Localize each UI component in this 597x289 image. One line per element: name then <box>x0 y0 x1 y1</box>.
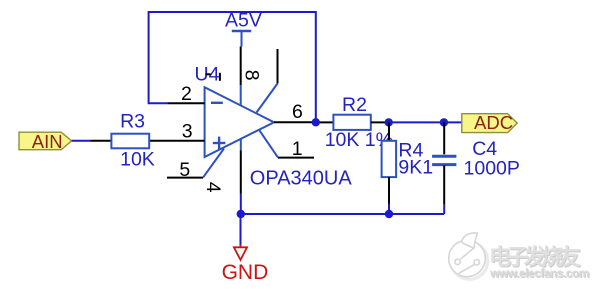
pin 7 lead <box>277 49 279 84</box>
node junction at C4 top <box>440 118 448 126</box>
pin 1 lead <box>278 157 314 159</box>
op-amp U4 triangle body <box>205 87 274 157</box>
ground stem <box>240 245 242 248</box>
svg-text:2: 2 <box>181 83 192 105</box>
svg-text:1000P: 1000P <box>464 157 520 179</box>
pin 7 angled stub <box>257 84 278 113</box>
artifact dash in U4 label <box>205 73 210 75</box>
wire ground rail <box>241 213 444 215</box>
svg-text:AIN: AIN <box>32 131 63 152</box>
resistor R4 top lead <box>388 122 390 140</box>
resistor R2 body <box>333 115 370 130</box>
node junction at ground tee <box>237 210 245 218</box>
svg-text:OPA340UA: OPA340UA <box>250 168 353 190</box>
resistor R2 right lead <box>371 121 389 123</box>
artifact tick after U4 label <box>219 73 221 81</box>
ground triangle symbol <box>234 247 247 260</box>
capacitor C4 top lead <box>443 122 445 154</box>
pin 6 output lead <box>274 121 316 123</box>
resistor R3 leads <box>91 140 168 142</box>
svg-text:A5V: A5V <box>225 10 262 32</box>
port flag ADC <box>462 114 517 133</box>
resistor R3 body <box>111 134 149 149</box>
wire feedback loop from output node to pin 2 <box>149 12 316 122</box>
op-amp U4 inverting input minus marker <box>211 102 223 104</box>
wire to ground symbol <box>240 214 242 245</box>
svg-text:5: 5 <box>179 159 190 181</box>
node junction at op-amp output <box>312 118 320 126</box>
capacitor C4 bottom plate <box>432 163 456 166</box>
node junction at R4 bottom <box>385 210 393 218</box>
resistor R4 body <box>382 141 397 177</box>
svg-text:R2: R2 <box>342 94 367 116</box>
svg-text:1: 1 <box>292 138 303 160</box>
svg-text:9K1: 9K1 <box>398 157 433 179</box>
svg-text:www.elecfans.com: www.elecfans.com <box>489 266 589 280</box>
pin 4 stub to triangle <box>240 139 242 150</box>
resistor R4 bottom lead <box>388 177 390 203</box>
op-amp U4 non-inverting input plus marker <box>213 137 226 150</box>
power port A5V bar symbol <box>232 31 251 47</box>
wire R2 to ADC port <box>389 121 462 123</box>
svg-text:6: 6 <box>292 101 303 123</box>
wire pin 4 to ground rail <box>240 194 242 215</box>
svg-text:R3: R3 <box>120 111 145 133</box>
pin 4 lead <box>240 151 242 194</box>
pin 8 stub to triangle <box>240 85 242 106</box>
pin 2 lead <box>167 102 204 104</box>
svg-text:GND: GND <box>222 261 269 284</box>
node junction at R4 top <box>385 118 393 126</box>
wire C4 to ground rail <box>443 205 445 214</box>
wire AIN to R3 <box>72 140 91 142</box>
pin 3 lead <box>167 140 205 142</box>
pin 5 angled stub <box>203 149 224 178</box>
port flag AIN <box>19 132 72 150</box>
watermark logo <box>449 233 488 279</box>
svg-text:10K: 10K <box>120 149 155 171</box>
svg-text:4: 4 <box>202 182 224 193</box>
wire R4 to ground rail <box>388 204 390 215</box>
svg-text:3: 3 <box>182 121 193 143</box>
svg-text:ADC: ADC <box>474 112 513 133</box>
capacitor C4 bottom lead <box>443 165 445 204</box>
resistor R2 left lead <box>316 121 334 123</box>
svg-text:8: 8 <box>241 70 263 81</box>
pin 5 lead <box>167 177 203 179</box>
capacitor C4 top plate <box>432 155 456 158</box>
pin 1 angled stub <box>259 130 278 157</box>
pin 8 lead <box>240 47 242 86</box>
